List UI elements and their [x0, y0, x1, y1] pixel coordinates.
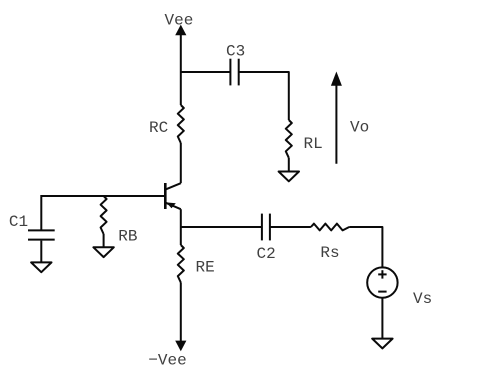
svg-text:C2: C2 [257, 245, 276, 263]
wire C1 to ground [40, 241, 42, 263]
svg-text:RE: RE [196, 259, 215, 277]
wire emitter to junction [180, 209, 182, 245]
ground under C1 [31, 262, 51, 272]
wire C2 to Rs [270, 226, 311, 228]
resistor RC [178, 105, 184, 143]
wire RL to ground [288, 158, 290, 172]
Vs minus sign [378, 291, 386, 293]
svg-text:Rs: Rs [320, 244, 339, 262]
wire base [41, 195, 165, 197]
resistor RE [178, 245, 184, 283]
Vs plus sign [378, 270, 386, 278]
node collector-C3 junction [181, 71, 231, 73]
svg-text:−Vee: −Vee [148, 352, 186, 370]
svg-text:Vee: Vee [165, 12, 194, 30]
capacitor C1 [28, 230, 55, 239]
resistor RB [101, 196, 107, 234]
ground under RB [93, 247, 113, 257]
power arrow -Vee (down) [175, 341, 186, 352]
wire Rs to Vs [349, 227, 382, 268]
svg-text:C3: C3 [226, 43, 245, 61]
wire Vs to ground [381, 297, 383, 338]
resistor Rs [311, 224, 349, 231]
wire Vee down to RC top [180, 33, 182, 105]
transistor Q1 collector diagonal [165, 183, 181, 189]
transistor Q1 emitter diagonal [165, 203, 181, 210]
ground under Vs [372, 339, 392, 349]
svg-text:RL: RL [304, 135, 323, 153]
wire junction to C2 [181, 226, 262, 228]
wire RC to collector [180, 143, 182, 183]
svg-text:Vo: Vo [350, 119, 369, 137]
svg-text:Vs: Vs [413, 290, 432, 308]
svg-text:C1: C1 [9, 213, 28, 231]
wire RE to -Vee arrow [180, 283, 182, 343]
svg-text:RC: RC [149, 119, 168, 137]
wire C3 to right corner [239, 72, 289, 120]
svg-text:RB: RB [118, 228, 137, 246]
transistor Q1 base bar [164, 183, 167, 209]
transistor Q1 emitter arrow (PNP, points to base) [166, 202, 176, 208]
power arrow Vee (up) [175, 25, 186, 36]
capacitor C2 [262, 214, 270, 241]
ground under RL [279, 172, 299, 182]
wire down to C1 [40, 195, 42, 230]
capacitor C3 [230, 59, 238, 86]
annotation arrow Vo (up) [331, 72, 342, 164]
resistor RL [286, 120, 292, 158]
wire RB to ground [103, 234, 105, 247]
voltage source Vs [367, 267, 397, 297]
